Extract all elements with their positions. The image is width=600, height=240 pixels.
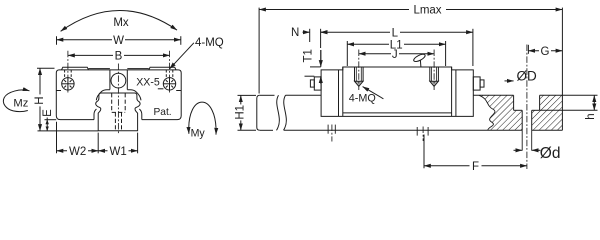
svg-text:W2: W2	[69, 146, 86, 158]
moment arc My	[189, 102, 216, 139]
svg-text:ØD: ØD	[517, 68, 538, 83]
dimension Lmax	[259, 5, 562, 94]
grease nipple right end	[473, 77, 484, 90]
svg-text:B: B	[115, 51, 123, 63]
hole centerlines (side view)	[359, 50, 434, 91]
centerline right screw	[169, 51, 171, 93]
grease port boss	[110, 70, 127, 90]
dimension W	[57, 35, 181, 47]
dimension H	[34, 68, 55, 131]
grease port circle	[111, 73, 126, 88]
dimension N	[291, 27, 327, 42]
rail right end edge + Lmax extension	[561, 8, 563, 131]
svg-text:Mz: Mz	[13, 98, 28, 110]
tapped hole left (side view)	[355, 67, 364, 86]
oil hole on block top	[413, 53, 426, 67]
rail hidden counterbore (front view)	[112, 93, 126, 130]
svg-text:4-MQ: 4-MQ	[195, 37, 224, 49]
svg-text:My: My	[191, 128, 206, 140]
moment arc Mx	[61, 10, 177, 31]
svg-text:L: L	[392, 27, 399, 39]
rail profile (front view)	[96, 93, 140, 131]
grease nipple left end	[310, 77, 321, 90]
hidden rail hole B centerline	[422, 127, 424, 142]
svg-text:4-MQ: 4-MQ	[349, 92, 376, 104]
counterbore hole (section)	[514, 95, 540, 130]
svg-text:Lmax: Lmax	[413, 5, 441, 17]
carriage block outline (side view)	[321, 67, 473, 116]
extension line rail bottom (left)	[38, 130, 99, 132]
svg-text:W: W	[113, 35, 124, 47]
rail break lines	[277, 95, 287, 130]
svg-text:T1: T1	[303, 49, 315, 62]
end cap joint lines	[339, 67, 456, 116]
dimension H1	[235, 95, 256, 130]
hidden rail hole B edges	[417, 127, 428, 136]
dimension F	[424, 161, 527, 173]
dimension B	[68, 51, 170, 63]
dimension L1	[347, 39, 445, 66]
rail side view bottom edge	[260, 129, 563, 131]
dimension E	[42, 109, 54, 131]
rail side view top edge	[260, 94, 321, 96]
svg-text:J: J	[392, 49, 398, 61]
tapped hole right (side view)	[430, 67, 439, 86]
svg-text:Pat.: Pat.	[154, 107, 172, 118]
svg-text:F: F	[472, 161, 479, 173]
dimension Ød	[514, 145, 561, 162]
dimension h	[540, 95, 598, 119]
hidden rail hole A edges	[328, 125, 335, 134]
svg-text:E: E	[42, 109, 54, 117]
dimension T1	[303, 49, 321, 84]
svg-text:W1: W1	[109, 146, 126, 158]
svg-text:Ød: Ød	[540, 145, 561, 162]
svg-text:XX-5: XX-5	[136, 76, 160, 88]
dimension W1	[98, 146, 137, 158]
svg-text:G: G	[541, 46, 550, 58]
rail left end	[257, 95, 260, 130]
screw right hidden bore lines	[166, 70, 173, 78]
carriage block outline (front view)	[56, 70, 181, 120]
label 4-MQ (side view) with leader	[349, 87, 384, 105]
screw left hidden bore lines	[65, 70, 72, 78]
dimension W2	[57, 146, 99, 158]
F extension line at hole B	[423, 135, 425, 169]
mounting screw left (front view)	[62, 78, 74, 90]
hatched rail section	[473, 95, 562, 130]
dimension L	[321, 27, 473, 66]
block top lip lines	[62, 67, 177, 70]
centerline through grease port and rail hole	[117, 64, 119, 135]
end-cap joint ticks	[56, 90, 61, 92]
dimension J	[359, 49, 434, 61]
svg-text:h: h	[585, 113, 597, 119]
label ØD with arrow	[505, 68, 538, 83]
svg-text:H1: H1	[235, 105, 247, 120]
svg-text:N: N	[291, 27, 299, 39]
block bottom recess line	[343, 112, 452, 114]
extension line block bottom (left)	[45, 119, 57, 121]
hidden rail hole A centerline under block	[331, 125, 333, 142]
block inner cavity lip lines (wrap rail grooves)	[94, 90, 142, 120]
dimension W2 / W1 extension lines	[57, 122, 138, 154]
mounting screw right (front view)	[163, 78, 175, 90]
section hole centerline	[526, 45, 528, 170]
svg-text:H: H	[34, 96, 46, 104]
label 4-MQ (front view) with leader	[170, 37, 224, 69]
hole edge extensions below rail	[522, 130, 532, 150]
svg-text:Mx: Mx	[113, 17, 129, 29]
dimension G	[528, 45, 562, 58]
centerline left screw	[67, 51, 69, 93]
moment arc Mz	[3, 90, 29, 112]
